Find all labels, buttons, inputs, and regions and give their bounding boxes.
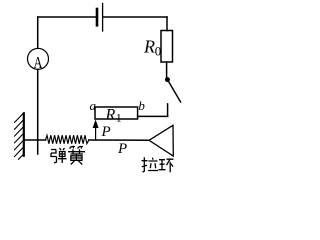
rod spring to ring	[89, 139, 149, 141]
switch S1 pivot dot	[165, 77, 170, 82]
svg-text:A: A	[34, 54, 43, 72]
text 弹簧 (spring) drawn strokes: char 弹	[51, 148, 67, 163]
svg-text:b: b	[138, 98, 145, 113]
text 拉环 (pull ring) drawn strokes: char 环	[159, 159, 174, 172]
wire ammeter to slider rail	[37, 69, 39, 154]
wire top-right horizontal	[103, 16, 167, 18]
battery cell BT1 positive plate	[102, 4, 104, 32]
svg-text:R: R	[105, 106, 116, 123]
switch S1 fixed contact post	[167, 104, 169, 117]
wire left vertical battery to ammeter	[37, 17, 39, 48]
svg-text:P: P	[117, 141, 127, 157]
spring coil	[46, 135, 89, 143]
svg-text:R: R	[143, 36, 155, 56]
text 弹簧 (spring) drawn strokes: char 簧	[68, 147, 85, 165]
battery cell BT1 negative plate	[96, 9, 99, 25]
slider P arrowhead	[93, 120, 99, 129]
rod wall to spring	[25, 139, 46, 141]
resistor R0 body	[161, 31, 173, 63]
wire right vertical to R0	[166, 17, 168, 31]
rheostat R1 body	[95, 107, 138, 119]
wall anchor vertical bar	[23, 113, 25, 155]
svg-text:0: 0	[155, 43, 162, 58]
svg-text:a: a	[90, 98, 97, 113]
switch S1 blade (open)	[168, 80, 181, 102]
wall hatch lines	[15, 114, 24, 160]
wire top-left horizontal	[38, 16, 96, 18]
slider P arrow shaft	[95, 127, 97, 140]
wire R0 to switch	[166, 62, 168, 78]
svg-text:1: 1	[116, 111, 122, 125]
svg-text:P: P	[101, 124, 111, 140]
ammeter A1 circle	[28, 48, 49, 69]
wire from node b to switch contact	[138, 115, 168, 117]
text 拉环 (pull ring) drawn strokes: char 拉	[142, 157, 159, 172]
pull ring triangle	[149, 125, 173, 156]
